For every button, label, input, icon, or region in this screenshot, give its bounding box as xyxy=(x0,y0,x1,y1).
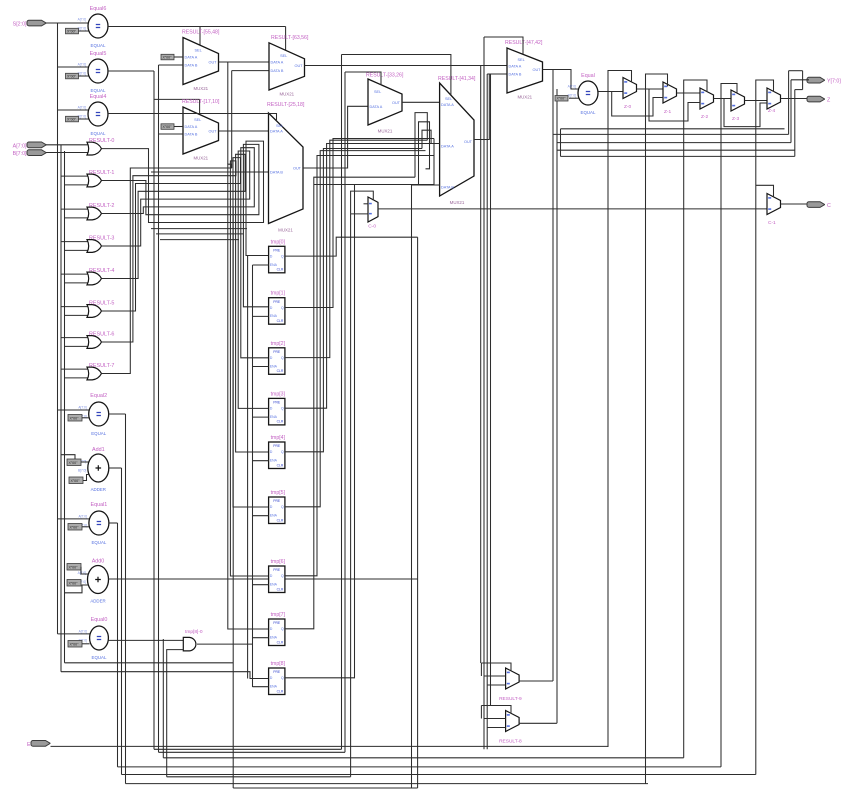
wire M7 region vertical b xyxy=(486,74,488,749)
svg-text:OUT: OUT xyxy=(208,61,217,65)
wire M7 SEL loop xyxy=(484,37,523,54)
adder Add0 xyxy=(78,559,109,604)
svg-text:ENA: ENA xyxy=(270,583,278,587)
svg-text:ENA: ENA xyxy=(270,364,278,368)
svg-text:X"00": X"00" xyxy=(163,125,173,129)
svg-text:B[7:0]: B[7:0] xyxy=(568,94,576,98)
wire RESULT-3 to tmp[3] D xyxy=(102,151,269,408)
wire knot vertical to bottom xyxy=(232,207,234,788)
svg-text:ENA: ENA xyxy=(270,685,278,689)
mux M3 xyxy=(269,35,309,97)
svg-text:PRE: PRE xyxy=(273,670,281,674)
wire RESULT-8 out xyxy=(519,722,557,724)
flip-flop tmp[4] xyxy=(269,435,286,469)
small mux Z-1 xyxy=(663,82,677,115)
svg-text:PRE: PRE xyxy=(273,568,281,572)
svg-text:ADDER: ADDER xyxy=(91,487,106,492)
input pad A[7:0] xyxy=(13,142,46,149)
wire Equal5 B xyxy=(79,75,89,77)
wire Z-3 top loop xyxy=(721,84,737,99)
svg-text:PRE: PRE xyxy=(273,499,281,503)
mux M6 RESULT-[41,34] xyxy=(438,76,476,205)
wire S to Equal5 A xyxy=(58,66,89,68)
wire Z-0 top loop xyxy=(608,71,632,92)
wire M4 DATA B feed xyxy=(151,171,269,173)
svg-text:PRE: PRE xyxy=(273,350,281,354)
svg-text:CLR: CLR xyxy=(277,689,284,693)
small mux Z-4 xyxy=(767,88,781,114)
svg-text:OUT: OUT xyxy=(293,167,302,171)
flip-flop tmp[1] xyxy=(269,291,286,325)
wire Z under-step 1 xyxy=(612,92,663,117)
wire bottom bus 8 xyxy=(233,787,417,789)
wire RESULT-9 top loop xyxy=(481,663,511,671)
wire ENA stub xyxy=(253,686,269,688)
wire bottom bus 6 xyxy=(167,776,351,778)
wire Equal6 B xyxy=(79,30,89,32)
wire Add0 A feed xyxy=(81,567,88,574)
svg-text:RESULT-[25,18]: RESULT-[25,18] xyxy=(267,102,305,108)
wire staple 3 xyxy=(422,130,431,148)
wire tmp[4] Q net xyxy=(285,149,422,452)
wire bottom bus 2 xyxy=(159,751,346,753)
wire ENA stub xyxy=(253,637,269,639)
svg-text:SEL: SEL xyxy=(374,90,381,94)
wire Z-2 out to Z-3 xyxy=(714,98,732,100)
svg-text:X"00": X"00" xyxy=(67,117,77,121)
svg-text:EQUAL: EQUAL xyxy=(91,43,106,48)
svg-text:Z-0: Z-0 xyxy=(624,104,632,110)
svg-text:PRE: PRE xyxy=(273,401,281,405)
svg-text:Q: Q xyxy=(281,255,284,259)
wire tmp gate in B line xyxy=(65,662,234,664)
OR gate RESULT-2 xyxy=(87,203,114,220)
svg-text:X"00": X"00" xyxy=(163,55,173,59)
wire Y pad line xyxy=(791,79,809,81)
wire C-1 out to C pad xyxy=(781,203,810,205)
wire ENA stub xyxy=(253,264,269,266)
wire Equal4 B xyxy=(79,118,89,120)
wire riser 1 xyxy=(788,71,790,135)
OR gate RESULT-1 xyxy=(87,170,114,187)
wire bottom bus 5 xyxy=(122,774,756,776)
svg-text:Equal0: Equal0 xyxy=(91,617,108,623)
wire C-0 top loop xyxy=(351,191,374,214)
flip-flop tmp[8] xyxy=(269,661,286,695)
comparator Equal xyxy=(568,73,598,115)
wire Z-0 loop vertical xyxy=(607,92,609,748)
constant box Add0 B const xyxy=(67,580,81,587)
svg-text:A[7:0]: A[7:0] xyxy=(78,106,86,110)
svg-text:DATA A: DATA A xyxy=(271,61,284,65)
mux M7 xyxy=(505,40,543,100)
wire RESULT-2 to tmp[2] D xyxy=(102,148,269,358)
wire C-1 top loop xyxy=(756,185,774,197)
wire Z-2 loop vertical xyxy=(683,93,685,758)
svg-text:PRE: PRE xyxy=(273,444,281,448)
flip-flop tmp[7] xyxy=(269,612,286,646)
svg-text:C-0: C-0 xyxy=(368,224,376,230)
wire Z-0 out to Z-1 xyxy=(637,88,664,90)
svg-text:X"00": X"00" xyxy=(67,74,77,78)
wire tmp[3] Q net xyxy=(285,144,440,409)
wire M1 DATA B xyxy=(159,64,184,66)
svg-text:B[7:0]: B[7:0] xyxy=(78,115,86,119)
wire S pad to Equal6 A xyxy=(46,22,88,24)
wire RESULT-1 in B xyxy=(65,184,90,186)
svg-text:DATA B: DATA B xyxy=(185,133,198,137)
svg-text:OUT: OUT xyxy=(464,140,473,144)
wire RESULT-6 to tmp[6] D xyxy=(102,161,269,576)
wire ENA chain vertical xyxy=(252,265,254,687)
wire M6 SEL long vertical xyxy=(341,55,343,750)
wire Z under-step 3 xyxy=(724,99,767,127)
wire ENA stub xyxy=(253,584,269,586)
svg-text:ENA: ENA xyxy=(270,263,278,267)
svg-text:RESULT-8: RESULT-8 xyxy=(499,739,522,745)
wire M1/M2 DATA B vertical xyxy=(158,65,160,752)
wire M1 SEL drop xyxy=(199,27,201,46)
wire tmp[8] D feed xyxy=(61,672,269,679)
wire Equal2 out xyxy=(109,413,126,415)
svg-text:X"00": X"00" xyxy=(69,582,79,586)
small mux Z-0 xyxy=(623,78,637,111)
flip-flop tmp[2] xyxy=(269,341,286,375)
svg-text:EQUAL: EQUAL xyxy=(91,88,106,93)
comparator Equal5 xyxy=(78,51,108,93)
svg-text:tmp[6]: tmp[6] xyxy=(271,559,286,565)
flip-flop tmp[0] xyxy=(269,239,286,272)
wire ENA stub xyxy=(253,366,269,368)
svg-text:ENA: ENA xyxy=(270,415,278,419)
wire RESULT-1 to tmp[1] D xyxy=(102,144,269,306)
wire bundle right 2a xyxy=(557,142,791,144)
svg-text:DATA A: DATA A xyxy=(185,56,198,60)
wire Add1 out xyxy=(109,467,122,469)
wire bottom bus 4 xyxy=(118,766,722,768)
comparator Equal4 xyxy=(78,94,108,136)
wire S to Equal2 A xyxy=(58,409,90,411)
svg-text:OUT: OUT xyxy=(208,130,217,134)
wire RESULT-8 loop vert xyxy=(480,706,482,719)
svg-text:MUX21: MUX21 xyxy=(193,156,208,161)
wire M7 DATA B left stub xyxy=(487,73,489,75)
svg-text:X"00": X"00" xyxy=(557,97,567,101)
svg-text:OUT: OUT xyxy=(294,64,303,68)
svg-text:CLR: CLR xyxy=(277,369,284,373)
svg-text:Q: Q xyxy=(281,676,284,680)
wire Add1 B xyxy=(83,475,89,481)
wire riser 4 xyxy=(802,71,804,90)
constant box Equal1 B const xyxy=(68,524,82,531)
wire B bus trunk xyxy=(64,151,66,663)
constant box Add1 B const xyxy=(69,477,83,484)
svg-text:Equal5: Equal5 xyxy=(90,51,107,57)
wire RESULT-0 to tmp[0] D xyxy=(102,141,269,255)
wire Equal2 B xyxy=(82,417,89,419)
svg-text:DATA B: DATA B xyxy=(271,69,284,73)
svg-text:ENA: ENA xyxy=(270,514,278,518)
wire B pad to RESULT-0 xyxy=(46,152,89,154)
mux M1 xyxy=(182,30,220,92)
wire E enable line xyxy=(51,745,609,747)
small mux RESULT-8 xyxy=(499,711,522,745)
svg-text:A[7:0]: A[7:0] xyxy=(79,630,87,634)
wire M5 SEL long vertical xyxy=(344,72,346,752)
svg-text:Z-2: Z-2 xyxy=(701,114,709,120)
wire M7 OUT to Equal A xyxy=(543,70,579,90)
wire M3 DATA B stub xyxy=(232,70,269,72)
svg-text:Q: Q xyxy=(281,306,284,310)
wire staple 1 xyxy=(415,113,427,178)
svg-text:C: C xyxy=(827,203,831,209)
svg-text:tmp[5]: tmp[5] xyxy=(271,490,286,496)
mux M2 xyxy=(182,99,220,161)
svg-text:EQUAL: EQUAL xyxy=(581,110,596,115)
wire RESULT-7 in A xyxy=(61,368,89,370)
wire bottom bus 1 xyxy=(154,748,342,750)
wire RESULT-4 to tmp[4] D xyxy=(102,154,269,452)
svg-text:DATA A: DATA A xyxy=(441,103,454,107)
svg-text:A[7:0]: A[7:0] xyxy=(13,143,27,149)
svg-text:MUX21: MUX21 xyxy=(378,129,393,134)
input pad S[2:0] xyxy=(13,20,46,27)
wire Z-1 out to Z-2 xyxy=(677,92,701,94)
OR gate RESULT-7 xyxy=(87,363,114,380)
svg-text:X"00": X"00" xyxy=(69,566,79,570)
svg-text:B[7:0]: B[7:0] xyxy=(13,151,27,157)
small mux Z-3 xyxy=(731,90,745,122)
svg-text:Z-4: Z-4 xyxy=(768,108,776,114)
wire Equal2 out vertical xyxy=(125,414,127,784)
wire tmp[0] Q long vertical xyxy=(417,237,419,788)
svg-text:SEL: SEL xyxy=(445,97,452,101)
svg-text:A[7:0]: A[7:0] xyxy=(78,406,86,410)
wire Equal0 out to tmp gate xyxy=(108,639,183,641)
svg-text:C-1: C-1 xyxy=(768,220,776,226)
svg-text:PRE: PRE xyxy=(273,300,281,304)
svg-text:Add1: Add1 xyxy=(92,447,105,453)
output pad C xyxy=(807,202,831,209)
wire M7 OUT feedback vertical xyxy=(552,70,554,682)
wire bundle extra 3 xyxy=(160,239,239,241)
wire riser top link xyxy=(789,70,803,72)
wire M2 SEL line xyxy=(154,98,200,100)
wire RESULT-7 in B xyxy=(65,377,90,379)
svg-text:tmp[3]: tmp[3] xyxy=(271,391,286,397)
wire RESULT-8 top loop xyxy=(481,706,511,714)
wire tmp[8] Q line xyxy=(314,184,434,186)
svg-text:tmp[4]: tmp[4] xyxy=(271,435,286,441)
svg-text:RESULT-[17,10]: RESULT-[17,10] xyxy=(182,99,220,105)
OR gate RESULT-4 xyxy=(87,268,114,285)
svg-text:SEL: SEL xyxy=(195,49,202,53)
wire S to Equal0 A xyxy=(58,633,91,635)
wire Equal1 out vertical xyxy=(117,523,119,767)
wire bundle right 4 xyxy=(561,128,785,130)
input pad E xyxy=(27,741,50,748)
svg-text:X"00": X"00" xyxy=(67,29,77,33)
svg-text:ENA: ENA xyxy=(270,314,278,318)
svg-text:MUX21: MUX21 xyxy=(278,228,293,233)
wire Z-3 out to Z-4 xyxy=(745,100,768,102)
wire M1 DATA A xyxy=(174,56,183,58)
wire tmp gate in B riser xyxy=(167,650,184,663)
constant box Equal2 B const xyxy=(68,415,82,422)
svg-text:MUX21: MUX21 xyxy=(193,86,208,91)
svg-text:A[7:0]: A[7:0] xyxy=(78,63,86,67)
svg-text:Equal6: Equal6 xyxy=(90,6,107,12)
svg-text:EQUAL: EQUAL xyxy=(91,131,106,136)
wire RESULT-7 to tmp[7] D xyxy=(102,164,269,629)
wire riser 3 xyxy=(794,90,796,157)
wire Equal1 B xyxy=(82,526,89,528)
wire S bus trunk xyxy=(57,23,59,634)
wire S to Equal4 A xyxy=(58,109,89,111)
wire M7 DATA A vertical xyxy=(480,66,482,663)
wire bundle extra 2 xyxy=(156,233,243,235)
comparator Equal2 xyxy=(78,393,108,436)
svg-text:RESULT-9: RESULT-9 xyxy=(499,696,522,702)
wire M6 SEL feed xyxy=(342,55,451,96)
small mux C-1 xyxy=(767,194,781,227)
wire staple 4 to M6 DATA B xyxy=(434,139,440,186)
wire FF D bus vertical xyxy=(247,256,249,679)
constant box M2 DATA A const xyxy=(161,124,174,130)
wire Equal5 out xyxy=(108,70,154,72)
svg-text:DATA A: DATA A xyxy=(370,105,383,109)
constant box Equal B const xyxy=(555,96,568,102)
svg-text:OUT: OUT xyxy=(392,101,401,105)
wire RESULT-3 in B xyxy=(65,249,90,251)
svg-text:SEL: SEL xyxy=(518,58,525,62)
wire M5 SEL feed xyxy=(345,72,381,85)
wire Equal4 out to M4 SEL xyxy=(108,114,277,122)
wire M5 OUT to M6 DATA A xyxy=(402,101,440,103)
wire M2 DATA B xyxy=(159,133,184,135)
svg-text:Q: Q xyxy=(281,356,284,360)
svg-text:DATA B: DATA B xyxy=(441,186,454,190)
wire RESULT-3 in A xyxy=(61,241,89,243)
wire riser 2 xyxy=(790,80,792,143)
svg-text:S[2:0]: S[2:0] xyxy=(13,22,27,28)
wire M3 DATA B vertical xyxy=(231,71,233,168)
constant box Equal0 B const xyxy=(68,641,82,648)
svg-text:tmp[2]: tmp[2] xyxy=(271,341,286,347)
wire tmp[2] Q net xyxy=(285,140,427,357)
wire C-0 feedback vertical xyxy=(350,214,352,777)
wire Z-4 top loop xyxy=(756,80,774,101)
output pad Z xyxy=(807,96,831,103)
adder Add1 xyxy=(78,447,109,492)
wire C-0 out to C-1 xyxy=(378,208,767,210)
wire Z-1 loop vertical xyxy=(645,89,647,784)
svg-text:E: E xyxy=(27,742,31,748)
svg-text:A[7:0]: A[7:0] xyxy=(568,85,576,89)
wire bundle right 3 xyxy=(561,155,795,157)
wire RESULT-8 feedback vertical xyxy=(556,89,558,723)
wire ENA stub xyxy=(253,460,269,462)
wire RESULT-5 to tmp[5] D xyxy=(102,158,269,507)
svg-text:Q: Q xyxy=(281,627,284,631)
wire RESULT-5 in A xyxy=(61,306,89,308)
wire tmp[1] Q net xyxy=(285,139,434,308)
wire Z-4 loop vertical xyxy=(755,101,757,775)
svg-text:DATA B: DATA B xyxy=(270,171,283,175)
wire bundle right 1 xyxy=(553,133,789,135)
wire Z-4 out to Z pad xyxy=(781,98,810,100)
wire M1 OUT to M3 DATA A xyxy=(219,61,270,63)
svg-text:CLR: CLR xyxy=(277,319,284,323)
svg-text:RESULT-[55,48]: RESULT-[55,48] xyxy=(182,30,220,36)
svg-text:Y[7:0]: Y[7:0] xyxy=(827,79,841,85)
constant box Add1 A const xyxy=(67,459,81,466)
flip-flop tmp[6] xyxy=(269,559,286,593)
wire RESULT-2 in A xyxy=(61,208,89,210)
output pad Y[7:0] xyxy=(807,77,841,84)
wire Add1 A xyxy=(81,461,89,463)
wire Equal6 out xyxy=(108,26,286,28)
svg-text:DATA A: DATA A xyxy=(270,130,283,134)
svg-text:X"00": X"00" xyxy=(70,643,80,647)
wire RESULT-2 in B xyxy=(65,217,90,219)
wire RESULT-8 in A xyxy=(484,718,506,720)
small mux C-0 xyxy=(368,197,378,230)
input pad B[7:0] xyxy=(13,150,46,157)
small mux Z-2 xyxy=(700,88,714,120)
wire tmp[6] Q net xyxy=(285,156,434,576)
svg-text:Q: Q xyxy=(281,407,284,411)
comparator Equal6 xyxy=(78,6,108,48)
svg-text:Z-1: Z-1 xyxy=(664,109,672,115)
OR gate RESULT-6 xyxy=(87,332,114,349)
svg-text:CLR: CLR xyxy=(277,268,284,272)
wire bundle right 2 xyxy=(557,149,795,151)
svg-text:Z-3: Z-3 xyxy=(732,116,740,122)
svg-text:tmp[7]: tmp[7] xyxy=(271,612,286,618)
svg-text:A[7:0]: A[7:0] xyxy=(78,18,86,22)
wire bottom bus 7 xyxy=(126,783,649,785)
svg-text:CLR: CLR xyxy=(277,463,284,467)
OR gate RESULT-3 xyxy=(87,236,114,253)
svg-text:DATA A: DATA A xyxy=(441,145,454,149)
wire Equal out to Z-0 xyxy=(598,91,623,93)
wire Add0 out long xyxy=(109,578,418,580)
OR gate RESULT-5 xyxy=(87,301,114,318)
constant box Add0 A const xyxy=(67,564,81,571)
flip-flop tmp[5] xyxy=(269,490,286,524)
wire ENA stub xyxy=(253,315,269,317)
wire M7 region vertical a xyxy=(483,37,485,749)
small mux RESULT-9 xyxy=(499,668,522,702)
OR gate RESULT-0 xyxy=(87,138,114,155)
wire RESULT-8 in B xyxy=(487,727,505,729)
svg-text:Equal1: Equal1 xyxy=(91,502,108,508)
wire tmp[7] Q net xyxy=(285,177,415,629)
svg-text:EQUAL: EQUAL xyxy=(91,431,106,436)
wire M6 DATA B line xyxy=(412,184,435,186)
svg-text:SEL: SEL xyxy=(276,124,283,128)
svg-text:Add0: Add0 xyxy=(92,559,105,565)
svg-text:tmp[8]: tmp[8] xyxy=(271,661,286,667)
wire M3 OUT to M7 DATA A xyxy=(305,65,508,67)
wire RESULT-5 in B xyxy=(65,314,90,316)
svg-text:SEL: SEL xyxy=(280,54,287,58)
svg-text:Q: Q xyxy=(281,450,284,454)
constant box Equal5 B const xyxy=(66,73,79,79)
svg-text:Q: Q xyxy=(281,505,284,509)
mux M5 RESULT-[33,26] xyxy=(366,73,404,134)
